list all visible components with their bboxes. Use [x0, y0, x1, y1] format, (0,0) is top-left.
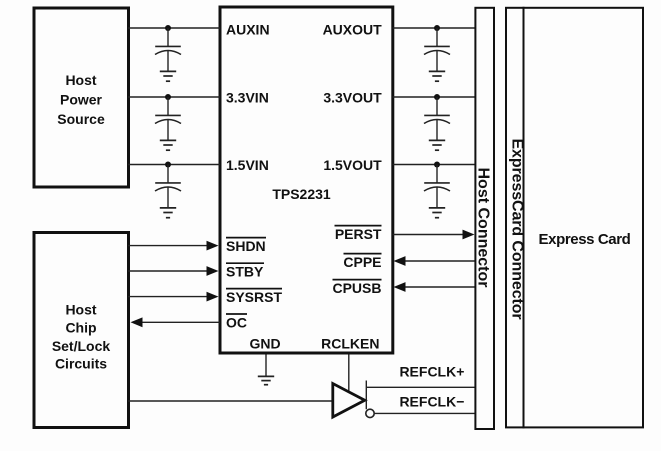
- connector ExpressCard Connector: [506, 8, 526, 428]
- wire SHDN with arrow: [128, 241, 219, 251]
- svg-text:RCLKEN: RCLKEN: [321, 335, 379, 351]
- node 3.3VOUT junction: [434, 94, 440, 100]
- buffer U2 (REFCLK driver): [333, 384, 365, 418]
- svg-text:Set/Lock: Set/Lock: [52, 338, 111, 354]
- block Express Card: [524, 8, 644, 428]
- svg-text:1.5VOUT: 1.5VOUT: [323, 157, 382, 173]
- svg-text:Source: Source: [57, 111, 105, 127]
- svg-text:CPPE: CPPE: [343, 254, 381, 270]
- svg-text:AUXOUT: AUXOUT: [323, 22, 383, 38]
- svg-text:AUXIN: AUXIN: [226, 22, 270, 38]
- wire 1.5VOUT: [393, 164, 476, 166]
- block Host Power Source: [34, 8, 129, 187]
- svg-text:Host: Host: [65, 301, 96, 317]
- svg-text:SYSRST: SYSRST: [226, 289, 282, 305]
- node 1.5VOUT junction: [434, 162, 440, 168]
- capacitor C5 (3.3VOUT bypass): [424, 97, 450, 140]
- wire REFCLK-: [374, 412, 475, 414]
- pin CPPE: [343, 254, 381, 270]
- svg-text:TPS2231: TPS2231: [272, 186, 331, 202]
- wire buffer input from Host Chip: [128, 400, 332, 402]
- svg-text:SHDN: SHDN: [226, 238, 266, 254]
- svg-text:Power: Power: [60, 92, 103, 108]
- capacitor C1 (AUXIN bypass): [155, 28, 181, 71]
- pin PERST: [335, 226, 382, 242]
- ground (C1): [160, 71, 176, 81]
- svg-text:STBY: STBY: [226, 264, 264, 280]
- wire 3.3VOUT: [393, 96, 476, 98]
- svg-text:REFCLK+: REFCLK+: [399, 364, 464, 380]
- svg-text:Chip: Chip: [65, 320, 96, 336]
- wire AUXIN: [128, 27, 220, 29]
- capacitor C3 (1.5VIN bypass): [155, 165, 181, 208]
- pin CPUSB: [332, 280, 381, 296]
- wire RCLKEN to buffer: [348, 355, 350, 392]
- svg-text:3.3VOUT: 3.3VOUT: [323, 90, 382, 106]
- connector Host Connector: [474, 8, 494, 429]
- node 1.5VIN junction: [165, 162, 171, 168]
- svg-text:CPUSB: CPUSB: [332, 280, 381, 296]
- wire 3.3VIN: [128, 96, 220, 98]
- pin STBY: [226, 263, 264, 279]
- wire STBY with arrow: [128, 266, 219, 276]
- svg-text:Circuits: Circuits: [55, 356, 107, 372]
- svg-text:GND: GND: [249, 335, 280, 351]
- svg-text:Host Connector: Host Connector: [474, 168, 491, 288]
- svg-text:Express Card: Express Card: [539, 231, 631, 248]
- IC U1 TPS2231: [220, 7, 393, 353]
- pin SYSRST: [226, 289, 282, 305]
- svg-text:REFCLK−: REFCLK−: [399, 393, 464, 409]
- inversion bubble on REFCLK- output: [366, 409, 374, 417]
- ground (C5): [429, 140, 445, 150]
- svg-text:1.5VIN: 1.5VIN: [226, 157, 269, 173]
- pin OC: [226, 314, 247, 330]
- block Host Chip Set/Lock Circuits: [34, 233, 129, 428]
- ground (GND pin): [258, 376, 274, 384]
- wire CPPE with arrow: [394, 256, 476, 266]
- ground (C6): [429, 208, 445, 218]
- wire AUXOUT: [393, 27, 476, 29]
- wire CPUSB with arrow: [394, 282, 476, 292]
- pin SHDN: [226, 238, 266, 254]
- wire buffer output stub: [365, 381, 367, 410]
- node AUXIN junction: [165, 25, 171, 31]
- ground (C2): [160, 140, 176, 150]
- wire GND pin lead: [265, 355, 267, 377]
- capacitor C4 (AUXOUT bypass): [424, 28, 450, 71]
- wire REFCLK+: [366, 386, 475, 388]
- capacitor C2 (3.3VIN bypass): [155, 97, 181, 140]
- node AUXOUT junction: [434, 25, 440, 31]
- wire PERST with arrow: [393, 230, 475, 240]
- ground (C4): [429, 71, 445, 81]
- wire 1.5VIN: [128, 164, 220, 166]
- ground (C3): [160, 208, 176, 218]
- svg-text:OC: OC: [226, 314, 247, 330]
- wire SYSRST with arrow: [128, 292, 219, 302]
- wire OC with arrow: [131, 317, 221, 327]
- capacitor C6 (1.5VOUT bypass): [424, 165, 450, 208]
- svg-text:Host: Host: [65, 72, 96, 88]
- svg-text:PERST: PERST: [335, 226, 382, 242]
- svg-text:3.3VIN: 3.3VIN: [226, 90, 269, 106]
- node 3.3VIN junction: [165, 94, 171, 100]
